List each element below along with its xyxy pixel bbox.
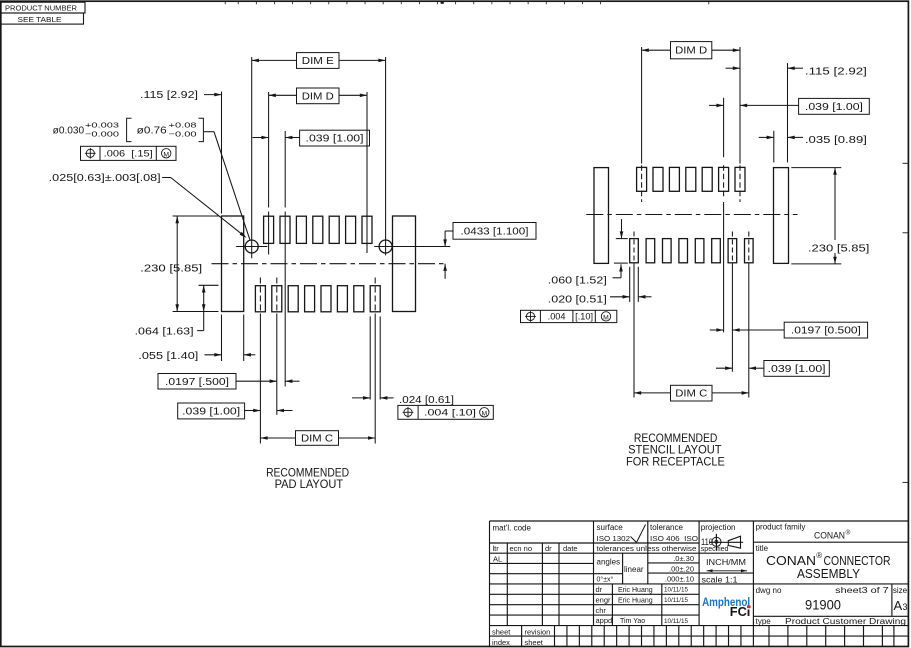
extension line: stencil top pad1 center: [641, 47, 643, 164]
svg-text:10/11/15: 10/11/15: [664, 618, 689, 625]
svg-text:−0.00: −0.00: [169, 129, 197, 138]
svg-text:DIM D: DIM D: [302, 91, 334, 102]
dimension .039 [1.00] (stencil top pitch): [799, 98, 870, 114]
svg-text:.004 [.10]: .004 [.10]: [424, 408, 476, 418]
svg-text:chr: chr: [596, 606, 607, 615]
dimension DIM C (left view): [296, 431, 339, 446]
svg-text:3: 3: [903, 602, 908, 612]
stencil: bottom aperture row (8): [630, 239, 639, 263]
svg-text:.0197 [0.500]: .0197 [0.500]: [791, 326, 861, 337]
svg-text:DIM C: DIM C: [675, 389, 707, 400]
bottom pad 1 centerline (dashed + extension): [259, 278, 261, 320]
svg-text:ISO 1302: ISO 1302: [597, 534, 631, 543]
extension line: top pad 1 center: [268, 92, 270, 208]
first-angle projection symbol: [712, 537, 721, 546]
svg-text:sheet: sheet: [492, 628, 511, 637]
dimension .039 [1.00] top (pad pitch): [253, 137, 269, 139]
dimension .0433 [1.100] (hole to centerline): [453, 223, 536, 240]
feature control frame (position .004, left view): [398, 405, 493, 419]
dimension DIM E: [252, 59, 297, 61]
svg-text:.004: .004: [548, 312, 566, 322]
dimension .0197 [.500] (row offset): [158, 374, 236, 390]
svg-text:linear: linear: [624, 565, 644, 574]
svg-text:DIM D: DIM D: [675, 46, 707, 57]
extension line: stencil right aperture left edge: [773, 131, 775, 163]
svg-text:M: M: [163, 151, 169, 158]
svg-text:tolerance: tolerance: [650, 523, 683, 532]
extension line: top pad 2 center (long): [284, 131, 286, 208]
feature control frame (position .006): [81, 146, 177, 160]
frame ruler ticks on top border: [224, 2, 226, 5]
svg-text:.039 [1.00]: .039 [1.00]: [768, 364, 826, 375]
svg-text:ASSEMBLY: ASSEMBLY: [797, 566, 860, 581]
svg-text:ltr: ltr: [493, 544, 500, 553]
svg-text:PRODUCT NUMBER: PRODUCT NUMBER: [5, 4, 78, 13]
svg-text:specified: specified: [701, 546, 729, 553]
stencil bottom pad7 centerline: [731, 232, 733, 267]
bottom pad 2 centerline (dashed + extension): [276, 278, 278, 320]
svg-text:[.10]: [.10]: [575, 312, 593, 322]
svg-text:dr: dr: [545, 544, 552, 553]
pad layout: left hole crosshair: [236, 246, 267, 248]
feature control frame (position .004, stencil): [521, 310, 617, 322]
svg-text:®: ®: [816, 551, 822, 560]
svg-text:ISO 406 ISO: ISO 406 ISO: [650, 534, 698, 543]
svg-text:+0.003: +0.003: [85, 121, 119, 130]
svg-text:tolerances unless otherwise: tolerances unless otherwise: [597, 546, 697, 553]
extension line: stencil top pad7 center: [739, 47, 741, 164]
svg-text:®: ®: [846, 529, 851, 537]
svg-text:ø0.030: ø0.030: [53, 125, 85, 136]
extension lines for .024 (pad 8 edges): [369, 316, 371, 399]
svg-text:CONAN: CONAN: [814, 531, 845, 541]
svg-text:.230 [5.85]: .230 [5.85]: [808, 244, 870, 255]
svg-text:.035 [0.89]: .035 [0.89]: [805, 135, 867, 146]
extension line: left pad left edge vertical: [221, 92, 223, 214]
pad layout: left mounting pad: [222, 216, 244, 312]
svg-text:M: M: [603, 314, 609, 321]
svg-text:appd: appd: [596, 616, 613, 625]
svg-text:ø0.76: ø0.76: [137, 125, 168, 136]
svg-text:10/11/15: 10/11/15: [664, 587, 689, 594]
svg-text:scale 1:1: scale 1:1: [702, 575, 739, 584]
pad layout: horizontal centerline (dash-dot): [212, 263, 448, 265]
svg-text:M: M: [481, 410, 487, 417]
extension line: top pad 7 center: [366, 92, 368, 253]
svg-text:.039 [1.00]: .039 [1.00]: [182, 406, 240, 417]
svg-text:revision: revision: [525, 628, 551, 637]
svg-text:.039 [1.00]: .039 [1.00]: [805, 102, 863, 113]
title block grid: [490, 520, 909, 522]
svg-text:.039 [1.00]: .039 [1.00]: [306, 134, 364, 145]
svg-text:+0.08: +0.08: [169, 121, 197, 130]
svg-text:0°±x°: 0°±x°: [597, 576, 614, 584]
dimension .0197 [0.500] (stencil row offset): [784, 322, 867, 338]
svg-text:RECOMMENDED: RECOMMENDED: [266, 468, 349, 480]
pad layout: left hole circle: [245, 240, 258, 253]
svg-text:sheet: sheet: [525, 638, 544, 647]
svg-text:.020 [0.51]: .020 [0.51]: [548, 294, 607, 305]
svg-text:.064 [1.63]: .064 [1.63]: [135, 326, 194, 337]
stencil: right end aperture: [774, 168, 789, 264]
svg-text:−0.000: −0.000: [85, 129, 119, 138]
svg-text:title: title: [756, 544, 769, 553]
stencil: horizontal centerline (dash-dot): [586, 214, 797, 216]
svg-text:angles: angles: [597, 558, 621, 567]
dimension DIM D (stencil): [642, 49, 671, 51]
svg-text:.0197 [.500]: .0197 [.500]: [165, 377, 229, 388]
svg-text:.0433 [1.100]: .0433 [1.100]: [461, 226, 529, 237]
pad layout: top pad row (7 pads): [264, 216, 274, 243]
svg-text:Product Customer Drawing: Product Customer Drawing: [785, 617, 906, 626]
svg-text:engr: engr: [596, 595, 612, 604]
extension line: right circle center vertical (DIM E right): [385, 57, 387, 255]
svg-text:A: A: [894, 598, 903, 613]
svg-text:FOR RECEPTACLE: FOR RECEPTACLE: [626, 457, 725, 469]
svg-text:RECOMMENDED: RECOMMENDED: [634, 433, 718, 445]
dimension DIM D: [269, 94, 297, 96]
leader from hole callout to left hole: [204, 131, 214, 133]
svg-text:.060 [1.52]: .060 [1.52]: [548, 275, 607, 286]
pad layout: bottom pad row (8 pads): [255, 286, 265, 312]
svg-text:PAD LAYOUT: PAD LAYOUT: [275, 479, 344, 491]
title block bottom index grid: [521, 626, 523, 647]
stencil bottom pad1 centerline: [633, 232, 635, 267]
bottom pad 8 centerline (dashed + extension): [374, 278, 376, 320]
svg-text:.115 [2.92]: .115 [2.92]: [805, 66, 867, 77]
svg-text:.055 [1.40]: .055 [1.40]: [138, 351, 198, 362]
svg-text:dr: dr: [596, 585, 603, 594]
frame zone mark (filled) on top border: [441, 1, 444, 4]
svg-text:Eric Huang: Eric Huang: [618, 587, 653, 594]
svg-text:projection: projection: [701, 523, 736, 532]
svg-text:product family: product family: [756, 523, 806, 532]
svg-text:size: size: [893, 586, 908, 595]
svg-text:sheet3 of 7: sheet3 of 7: [835, 586, 889, 595]
extension lines for .055: [221, 315, 223, 362]
svg-text:.025[0.63]±.003[.08]: .025[0.63]±.003[.08]: [49, 173, 161, 184]
pad layout: right hole crosshair / .0433 reference line: [374, 246, 450, 248]
svg-text:dwg no: dwg no: [756, 586, 782, 595]
svg-text:INCH/MM: INCH/MM: [706, 557, 746, 567]
dimension DIM C (stencil): [671, 385, 713, 401]
svg-text:.024 [0.61]: .024 [0.61]: [399, 395, 454, 406]
product number table: [1, 2, 85, 13]
leader from .025 callout to left hole area: [162, 177, 171, 179]
svg-text:SEE TABLE: SEE TABLE: [18, 15, 62, 24]
svg-text:.230 [5.85]: .230 [5.85]: [140, 263, 202, 274]
svg-text:Eric Huang: Eric Huang: [618, 597, 653, 604]
svg-text:DIM C: DIM C: [301, 434, 333, 445]
stencil: left end aperture: [594, 168, 609, 264]
svg-text:Tim Yao: Tim Yao: [620, 618, 645, 625]
extension line: stencil top pad6 center: [723, 98, 725, 157]
svg-text:STENCIL LAYOUT: STENCIL LAYOUT: [628, 444, 722, 456]
svg-text:.115 [2.92]: .115 [2.92]: [140, 90, 198, 101]
svg-text:ecn no: ecn no: [510, 544, 533, 553]
svg-text:index: index: [492, 638, 510, 647]
stencil: top aperture row (7): [637, 167, 647, 191]
extension line: left circle center vertical (DIM E left): [251, 57, 253, 258]
svg-text:AL: AL: [493, 554, 502, 563]
svg-text:.0±.30: .0±.30: [673, 554, 694, 563]
svg-text:date: date: [563, 544, 578, 553]
pad layout: right hole circle: [379, 240, 392, 253]
svg-text:DIM E: DIM E: [302, 56, 334, 67]
dimension .039 [1.00] (stencil bottom pitch): [764, 361, 829, 377]
extension line: stencil right aperture right edge: [787, 63, 789, 162]
stencil bottom pad8 centerline: [748, 232, 750, 267]
svg-text:.00±.20: .00±.20: [669, 564, 694, 573]
frame ruler ticks on right border: [903, 162, 908, 164]
dimension .039 [1.00] (bottom pitch): [178, 403, 245, 419]
svg-text:.006 [.15]: .006 [.15]: [104, 149, 153, 159]
svg-text:10/11/15: 10/11/15: [664, 597, 689, 604]
extension lines for .020 (aperture 1 edges): [629, 267, 631, 302]
pad layout: right mounting pad: [393, 216, 416, 312]
svg-text:mat'l. code: mat'l. code: [493, 524, 532, 533]
svg-text:.000±.10: .000±.10: [665, 575, 694, 584]
svg-text:91900: 91900: [805, 597, 841, 612]
svg-text:surface: surface: [597, 523, 624, 532]
svg-text:type: type: [756, 617, 772, 626]
